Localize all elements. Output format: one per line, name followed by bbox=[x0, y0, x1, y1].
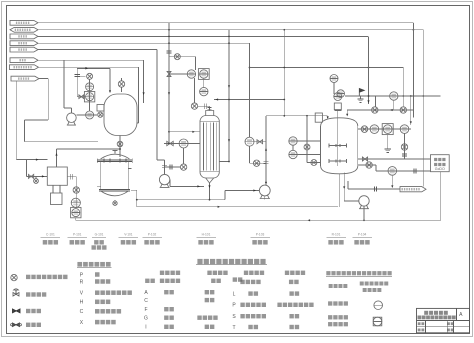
svg-text:G-101: G-101 bbox=[95, 233, 104, 237]
svg-text:H: H bbox=[80, 300, 84, 306]
svg-text:V-101: V-101 bbox=[124, 233, 133, 237]
svg-text:C-101: C-101 bbox=[46, 233, 55, 237]
svg-text:P-102: P-102 bbox=[148, 233, 157, 237]
svg-text:I: I bbox=[145, 325, 146, 331]
svg-text:L: L bbox=[233, 291, 236, 297]
svg-text:H-101: H-101 bbox=[202, 233, 211, 237]
svg-text:R-101: R-101 bbox=[332, 233, 341, 237]
svg-text:R: R bbox=[80, 279, 84, 285]
svg-text:P-103: P-103 bbox=[256, 233, 265, 237]
svg-text:P-101: P-101 bbox=[73, 233, 82, 237]
svg-text:F: F bbox=[144, 307, 147, 313]
svg-text:G: G bbox=[144, 316, 148, 322]
svg-text:C: C bbox=[80, 309, 84, 315]
svg-text:C: C bbox=[144, 298, 148, 304]
svg-text:T: T bbox=[232, 325, 235, 331]
svg-text:P-104: P-104 bbox=[358, 233, 367, 237]
svg-text:GcDO: GcDO bbox=[435, 167, 445, 171]
